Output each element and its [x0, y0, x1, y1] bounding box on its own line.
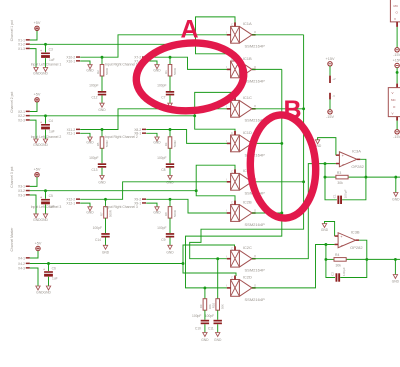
svg-text:100pF: 100pF	[157, 156, 166, 160]
svg-text:GNDGND: GNDGND	[33, 143, 48, 147]
label GNDGND	[33, 143, 48, 147]
svg-text:+15V: +15V	[326, 57, 335, 61]
annotation letter B	[284, 96, 302, 124]
svg-text:C14: C14	[95, 238, 101, 242]
svg-text:Input Left Channel 3: Input Left Channel 3	[31, 205, 62, 209]
svg-text:C: C	[231, 201, 233, 205]
svg-text:X10-1: X10-1	[66, 59, 75, 63]
resistor R1 500R	[164, 57, 177, 76]
svg-text:Channel Master: Channel Master	[10, 227, 14, 252]
wire	[396, 121, 398, 130]
svg-text:R1: R1	[164, 70, 168, 74]
svg-text:500R: 500R	[108, 210, 112, 217]
svg-text:R5: R5	[96, 142, 100, 146]
connector X2-1	[18, 110, 30, 114]
svg-text:30k: 30k	[336, 263, 342, 267]
svg-text:GND: GND	[321, 228, 329, 232]
label Channel Master	[10, 227, 14, 252]
svg-text:IC1C: IC1C	[243, 95, 252, 100]
ground	[86, 207, 94, 215]
VCA IC1D	[226, 130, 265, 158]
wire	[101, 76, 103, 91]
svg-text:500R: 500R	[173, 140, 177, 147]
VCA IC1A	[226, 21, 265, 49]
svg-text:C6: C6	[52, 267, 56, 271]
connector X4-3	[18, 266, 30, 270]
ground	[43, 214, 47, 218]
label Input Right Channel 3	[105, 205, 138, 209]
svg-text:100pF: 100pF	[342, 267, 346, 276]
wire	[252, 212, 282, 214]
svg-text:C1: C1	[333, 194, 337, 198]
svg-text:SSM2164P: SSM2164P	[245, 44, 266, 49]
wire	[101, 148, 103, 163]
ground	[166, 245, 174, 254]
svg-text:SSM2164P: SSM2164P	[245, 297, 266, 302]
wire	[80, 109, 230, 131]
wire	[80, 133, 90, 137]
svg-text:X12-1: X12-1	[66, 201, 75, 205]
svg-text:O: O	[254, 30, 256, 34]
ground	[34, 68, 38, 72]
wire	[217, 259, 219, 299]
svg-text:+: +	[43, 268, 45, 272]
+5V supply master	[35, 241, 42, 250]
wire IC2C out to IC3A	[252, 162, 336, 259]
svg-text:+V: +V	[332, 77, 336, 81]
wire	[318, 138, 336, 156]
svg-text:100pF: 100pF	[157, 226, 166, 230]
wire	[196, 191, 235, 201]
wire	[252, 68, 282, 70]
connector X4-2	[18, 262, 30, 266]
voltage regulator IC5 (partial)	[388, 88, 400, 117]
wire	[30, 268, 38, 286]
svg-text:IC3B: IC3B	[351, 229, 360, 234]
ground	[214, 333, 222, 342]
ground	[153, 65, 161, 73]
wire	[252, 181, 304, 183]
connector X3-1	[18, 185, 30, 189]
connector X11-1	[67, 132, 80, 136]
svg-text:500R: 500R	[173, 210, 177, 217]
wire master pot row	[30, 262, 185, 265]
+5V supply channel 3	[34, 168, 41, 177]
svg-text:X8-1: X8-1	[134, 132, 141, 136]
wire	[252, 108, 304, 110]
svg-text:Channel 1 pot: Channel 1 pot	[10, 20, 14, 41]
connector X10-1	[66, 59, 80, 63]
svg-text:IC3A: IC3A	[352, 148, 361, 153]
wire	[30, 195, 36, 214]
capacitor C6	[43, 264, 58, 281]
pin -V	[329, 93, 335, 100]
+5V supply channel 2	[34, 93, 41, 102]
wire feedback row A	[324, 176, 400, 179]
svg-text:O: O	[254, 65, 256, 69]
wire	[105, 238, 107, 246]
connector X2-2	[18, 114, 30, 118]
op-amp IC3B	[335, 229, 364, 250]
wire	[204, 310, 206, 320]
svg-text:SSM2164P: SSM2164P	[245, 222, 266, 227]
svg-text:+: +	[40, 195, 42, 199]
resistor R3 500R	[164, 130, 177, 149]
svg-text:IC2D: IC2D	[243, 274, 252, 279]
svg-text:GND: GND	[166, 250, 174, 254]
wire	[169, 76, 171, 91]
svg-text:30K: 30K	[221, 304, 225, 309]
wire	[195, 116, 235, 132]
annotation ellipse A	[134, 39, 246, 114]
ground	[98, 176, 106, 185]
wire	[252, 142, 282, 144]
svg-text:R10: R10	[212, 303, 216, 309]
svg-text:SSM2164P: SSM2164P	[245, 78, 266, 83]
resistor R8 500R	[164, 199, 177, 218]
svg-text:X11-1: X11-1	[67, 132, 76, 136]
svg-text:A: A	[181, 15, 199, 43]
VCA IC2C	[226, 245, 265, 273]
ground	[34, 214, 38, 218]
svg-text:GND: GND	[98, 181, 106, 185]
svg-text:O: O	[254, 104, 256, 108]
wire	[45, 130, 47, 139]
svg-text:1uF: 1uF	[52, 277, 58, 281]
wire mix bus right	[186, 69, 284, 289]
wire	[45, 58, 47, 67]
svg-text:IC2B: IC2B	[243, 199, 252, 204]
capacitor C11 100pF	[205, 314, 222, 330]
capacitor C8 100pF	[157, 156, 174, 172]
wire	[217, 310, 219, 320]
svg-text:Channel 3 pot: Channel 3 pot	[10, 167, 14, 188]
svg-text:SSM2164P: SSM2164P	[245, 268, 266, 273]
resistor R10 30K	[212, 299, 225, 311]
connector X1-1	[18, 38, 30, 42]
svg-text:100pF: 100pF	[89, 84, 98, 88]
svg-text:-V: -V	[332, 94, 335, 98]
svg-text:+5V: +5V	[34, 21, 41, 25]
wire feedback loop A	[325, 177, 366, 200]
svg-text:GND: GND	[86, 68, 94, 72]
svg-text:O: O	[254, 283, 256, 287]
svg-text:-15V: -15V	[326, 115, 334, 119]
svg-text:B: B	[284, 96, 302, 124]
ground	[392, 193, 400, 202]
pin	[396, 22, 398, 27]
resistor R7 500R	[100, 199, 113, 218]
svg-text:C13: C13	[91, 168, 97, 172]
ground	[86, 65, 94, 73]
wire	[169, 168, 171, 176]
capacitor C9 100pF	[157, 226, 174, 242]
label Input Right Channel 1	[105, 63, 138, 67]
svg-text:X9-1: X9-1	[134, 201, 141, 205]
wire	[80, 35, 230, 59]
svg-text:X3-3: X3-3	[18, 193, 25, 197]
svg-text:C: C	[231, 131, 233, 135]
label Channel 2 pot	[10, 92, 14, 113]
ground	[321, 224, 329, 233]
connector X1-2	[18, 43, 30, 47]
resistor R9 30K	[199, 299, 212, 311]
svg-text:Input Right Channel 2: Input Right Channel 2	[105, 135, 138, 139]
capacitor C12 100pF	[89, 84, 106, 100]
connector X12-2	[66, 198, 80, 202]
connector X3-2	[18, 189, 30, 193]
wire	[146, 128, 230, 143]
svg-text:500R: 500R	[105, 68, 109, 75]
svg-text:IC1A: IC1A	[243, 21, 252, 26]
wire	[196, 17, 236, 44]
svg-text:C: C	[231, 22, 233, 26]
connector X7-1	[134, 59, 146, 63]
svg-text:Channel 2 pot: Channel 2 pot	[10, 92, 14, 113]
wire	[324, 164, 326, 178]
wire	[146, 133, 157, 137]
svg-text:V: V	[392, 112, 394, 116]
ground	[102, 245, 110, 254]
svg-text:C10: C10	[195, 326, 201, 330]
svg-text:GND: GND	[392, 280, 400, 284]
svg-text:+: +	[40, 49, 42, 53]
wire	[252, 34, 304, 36]
wire	[204, 324, 206, 332]
label Input Left Channel 2	[31, 135, 62, 139]
VCA IC2A	[226, 168, 265, 196]
capacitor C2 100pF	[331, 267, 346, 282]
wire	[146, 56, 230, 70]
ground	[98, 103, 106, 112]
wire	[394, 258, 397, 275]
svg-text:500R: 500R	[173, 68, 177, 75]
+15V supply (regulator)	[393, 59, 400, 68]
svg-text:V: V	[394, 17, 396, 21]
label Input Left Channel 1	[31, 63, 62, 67]
svg-text:OP282: OP282	[351, 164, 364, 169]
wire	[101, 168, 103, 176]
VCA IC1C	[226, 95, 265, 123]
svg-text:GND: GND	[98, 108, 106, 112]
svg-text:1uF: 1uF	[49, 129, 55, 133]
svg-text:GND: GND	[153, 211, 161, 215]
wire	[30, 114, 196, 117]
capacitor C4	[40, 116, 55, 134]
label GNDGND	[36, 291, 51, 295]
resistor R4 30k	[334, 253, 346, 267]
wire	[204, 288, 206, 299]
connector X8-2	[134, 128, 146, 132]
svg-text:100pF: 100pF	[89, 156, 98, 160]
VCA IC2D	[226, 274, 265, 302]
wire	[329, 66, 331, 76]
connector X8-1	[134, 132, 146, 136]
svg-text:C: C	[231, 169, 233, 173]
capacitor C7 100pF	[157, 84, 174, 100]
resistor R2 500R	[96, 57, 109, 76]
resistor R3 30k	[336, 171, 348, 185]
svg-text:R4: R4	[335, 253, 339, 257]
VCA IC1B	[226, 56, 265, 84]
-15V supply (regulator)	[393, 48, 400, 58]
svg-text:C8: C8	[161, 168, 165, 172]
svg-text:C: C	[231, 246, 233, 250]
svg-text:GND: GND	[86, 211, 94, 215]
svg-text:OP282: OP282	[350, 245, 363, 250]
wire	[325, 245, 327, 260]
wire	[30, 120, 36, 139]
capacitor C13 100pF	[89, 156, 106, 172]
wire	[30, 177, 37, 186]
wire	[30, 102, 37, 111]
svg-text:C: C	[231, 276, 233, 280]
svg-text:Input Right Channel 3: Input Right Channel 3	[105, 205, 138, 209]
svg-text:-15V: -15V	[393, 135, 400, 139]
wire	[101, 95, 103, 103]
svg-text:500R: 500R	[105, 140, 109, 147]
wire	[45, 205, 47, 214]
+15V supply	[326, 57, 335, 66]
ground	[201, 333, 209, 342]
wire	[30, 43, 197, 46]
connector X2-3	[18, 118, 30, 122]
connector X4-1	[18, 256, 30, 260]
-15V supply (regulator 2)	[393, 130, 400, 140]
ground	[43, 139, 47, 143]
wire	[325, 222, 335, 237]
svg-text:X4-3: X4-3	[18, 266, 25, 270]
svg-text:C11: C11	[208, 326, 214, 330]
wire	[80, 61, 90, 65]
resistor R5 500R	[96, 130, 109, 149]
pin +V	[329, 76, 336, 83]
VCA IC2B	[226, 199, 265, 227]
connector X11-2	[67, 128, 80, 132]
voltage regulator IC4 (partial)	[390, 0, 400, 22]
wire	[105, 218, 107, 233]
wire	[30, 189, 198, 192]
ground	[314, 140, 322, 148]
label Input Left Channel 3	[31, 205, 62, 209]
wire	[169, 238, 171, 246]
svg-text:R9: R9	[199, 304, 203, 308]
wire feedback loop B	[326, 259, 367, 277]
svg-text:GND: GND	[201, 338, 209, 342]
label Input Right Channel 2	[105, 135, 138, 139]
svg-text:C7: C7	[161, 96, 165, 100]
svg-text:O: O	[254, 254, 256, 258]
connector X10-2	[66, 56, 80, 60]
svg-text:30k: 30k	[337, 181, 343, 185]
ground	[153, 137, 161, 145]
connector X3-3	[18, 193, 30, 197]
svg-text:GND: GND	[214, 338, 222, 342]
svg-text:C9: C9	[161, 238, 165, 242]
svg-text:GNDGND: GNDGND	[36, 291, 51, 295]
capacitor C1 100pF	[333, 189, 348, 204]
ground	[36, 286, 40, 290]
pin	[396, 84, 398, 88]
svg-text:X2-3: X2-3	[18, 118, 25, 122]
ground	[43, 68, 47, 72]
svg-text:X4-1: X4-1	[18, 256, 25, 260]
svg-text:C2: C2	[331, 272, 335, 276]
svg-text:R8: R8	[164, 212, 168, 216]
svg-text:Input Right Channel 1: Input Right Channel 1	[105, 63, 138, 67]
wire	[329, 99, 331, 109]
svg-text:C4: C4	[49, 119, 53, 123]
svg-text:GND: GND	[153, 141, 161, 145]
svg-text:GND: GND	[86, 141, 94, 145]
svg-text:C12: C12	[91, 96, 97, 100]
svg-text:GND: GND	[166, 181, 174, 185]
wire	[30, 31, 37, 40]
wire	[183, 245, 235, 264]
wire	[80, 182, 230, 201]
svg-text:-15V: -15V	[393, 53, 400, 57]
wire	[396, 27, 398, 48]
wire	[146, 198, 230, 213]
svg-text:+: +	[40, 120, 42, 124]
svg-text:X1-3: X1-3	[18, 47, 25, 51]
svg-text:GNDGND: GNDGND	[33, 72, 48, 76]
svg-text:C5: C5	[49, 194, 53, 198]
svg-text:O: O	[254, 208, 256, 212]
ground	[46, 286, 50, 290]
wire	[396, 68, 399, 84]
wire IC2D out to IC3B	[252, 243, 335, 288]
connector X9-2	[134, 198, 146, 202]
svg-text:+5V: +5V	[35, 241, 42, 245]
connector X12-1	[66, 201, 80, 205]
wire	[183, 264, 236, 277]
wire	[169, 218, 171, 233]
wire	[146, 61, 157, 65]
wire	[80, 203, 90, 207]
capacitor C10 100pF	[192, 314, 209, 330]
wire	[360, 159, 366, 177]
wire	[196, 44, 236, 57]
wire	[169, 148, 171, 163]
svg-text:100pF: 100pF	[344, 189, 348, 198]
wire mix bus left	[190, 35, 305, 260]
wire	[196, 165, 235, 191]
connector X7-2	[134, 56, 146, 60]
wire	[217, 324, 219, 332]
capacitor C5	[40, 191, 55, 209]
wire feedback row B	[324, 258, 400, 261]
annotation ellipse B	[248, 113, 319, 219]
svg-text:R2: R2	[96, 70, 100, 74]
svg-text:R3: R3	[337, 171, 341, 175]
svg-text:IC2C: IC2C	[243, 245, 252, 250]
svg-text:30K: 30K	[208, 304, 212, 309]
svg-text:R3: R3	[164, 142, 168, 146]
connector X9-1	[134, 201, 146, 205]
label GNDGND	[33, 218, 48, 222]
connector X1-3	[18, 47, 30, 51]
capacitor C3	[40, 44, 55, 62]
svg-text:R7: R7	[100, 212, 104, 216]
svg-text:GND: GND	[102, 250, 110, 254]
svg-text:+5V: +5V	[34, 168, 41, 172]
svg-text:Input Left Channel 2: Input Left Channel 2	[31, 135, 62, 139]
label Channel 1 pot	[10, 20, 14, 41]
ground	[392, 275, 400, 284]
wire	[195, 92, 235, 115]
svg-text:IC1B: IC1B	[243, 56, 252, 61]
